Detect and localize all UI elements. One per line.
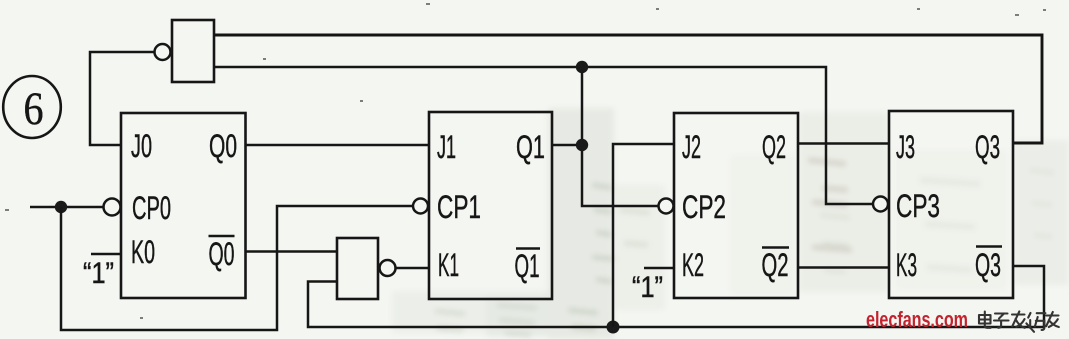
svg-text:K1: K1 (438, 247, 459, 283)
svg-text:CP2: CP2 (682, 189, 726, 225)
wire second rail Q1 net to U1 input 2 and CP3 (214, 67, 873, 204)
svg-text:J3: J3 (896, 129, 915, 165)
pin label Q3bar with overline (975, 247, 1002, 284)
svg-text:CP1: CP1 (437, 189, 481, 225)
svg-text:Q3: Q3 (975, 129, 1000, 165)
svg-text:“1”: “1” (83, 257, 114, 290)
svg-text:Q1: Q1 (515, 248, 540, 284)
flip-flop FF3 body (889, 111, 1013, 298)
svg-text:6: 6 (24, 83, 44, 135)
svg-text:K3: K3 (896, 247, 917, 283)
svg-text:K0: K0 (131, 234, 155, 270)
node junction dot on second rail (576, 61, 588, 73)
svg-text:Q2: Q2 (762, 247, 789, 283)
node junction dot on bottom rail (607, 321, 620, 334)
wire Q1 branch down to CP2 (582, 67, 659, 206)
wire bottom rail up to J2 (613, 144, 674, 327)
svg-text:J0: J0 (131, 128, 152, 164)
pin label Q0bar with overline (209, 236, 235, 272)
wire K0 constant stub (91, 253, 121, 256)
svg-text:CP0: CP0 (132, 190, 171, 226)
U2 output bubble (380, 260, 396, 276)
svg-text:Q1: Q1 (516, 129, 545, 165)
svg-text:Q0: Q0 (209, 236, 235, 272)
pin label Q1bar with overline (515, 248, 541, 284)
svg-text:elecfans.com: elecfans.com (866, 307, 968, 332)
wire Q2 to J3 (798, 142, 889, 145)
wire U1 output to J0 (90, 52, 155, 145)
svg-text:K2: K2 (682, 247, 704, 283)
U1 output bubble (155, 44, 171, 60)
svg-text:J1: J1 (437, 129, 456, 165)
wire Q1 output stub (552, 144, 582, 147)
wire top rail Q3 to U1 input 1 (214, 35, 1042, 143)
flip-flop FF2 body (674, 113, 798, 298)
CP2 bubble (659, 199, 674, 214)
wire Q0bar to U2 input 1 (246, 250, 338, 253)
svg-text:“1”: “1” (632, 271, 663, 304)
node junction dot on CP0 line (55, 201, 67, 213)
svg-text:Q3: Q3 (975, 247, 1001, 283)
svg-text:J2: J2 (682, 129, 701, 165)
wire CP0 node down along bottom to CP1 (61, 206, 413, 330)
wire Q0 to J1 (246, 144, 430, 147)
wire K2 constant stub (644, 267, 674, 270)
flip-flop FF1 body (429, 112, 552, 299)
wire Q3bar net: U2 input 2, bottom rail, Q3bar stub (308, 266, 1044, 327)
watermark chinese characters (drawn strokes) (979, 312, 1059, 332)
wire CP0 input stub (30, 206, 104, 209)
wire Q2bar to K3 (798, 266, 889, 269)
nand gate U2 (lower) body (337, 238, 378, 299)
CP3 bubble (873, 197, 888, 212)
CP0 bubble (104, 199, 121, 216)
label circle "6" (3, 76, 61, 138)
pin label Q2bar with overline (762, 247, 790, 283)
svg-text:Q2: Q2 (762, 129, 786, 165)
flip-flop FF0 body (121, 113, 246, 298)
CP1 bubble (413, 199, 428, 214)
wire U2 output to K1 (396, 267, 430, 270)
svg-text:CP3: CP3 (896, 188, 940, 224)
svg-text:Q0: Q0 (209, 128, 237, 164)
node junction dot on Q1 output (576, 139, 588, 151)
nand gate U1 (top) body (172, 20, 214, 82)
